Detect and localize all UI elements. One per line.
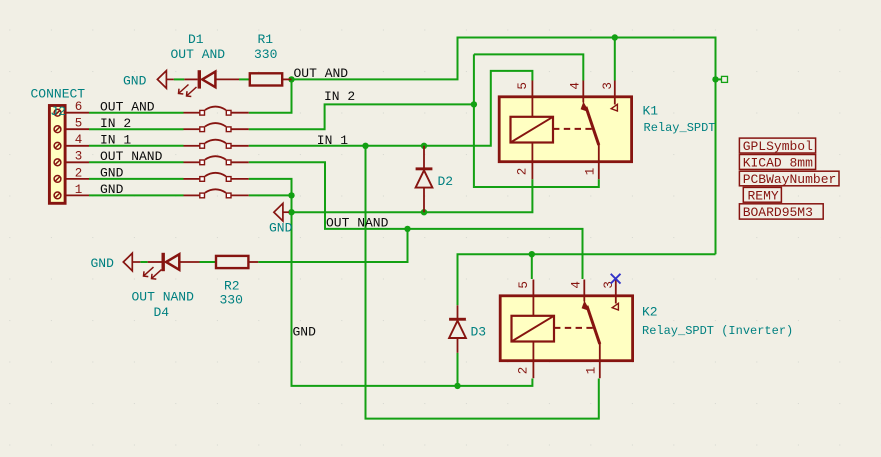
connector J2 CONNECT <box>31 87 90 204</box>
svg-text:D3: D3 <box>471 324 487 339</box>
wire GND branch to K1 pin2 <box>292 179 533 212</box>
svg-text:PCBWayNumber: PCBWayNumber <box>743 172 837 187</box>
svg-text:OUT NAND: OUT NAND <box>100 149 163 164</box>
junction OUT NAND to R2 <box>404 226 410 232</box>
text box GPLSymbol <box>739 138 815 154</box>
resistor R1 <box>250 73 292 85</box>
svg-text:IN 1: IN 1 <box>317 133 348 148</box>
svg-text:D2: D2 <box>438 174 454 189</box>
ground symbol at D4 <box>123 253 140 271</box>
wire row6 from connector <box>89 112 184 114</box>
connector row labels <box>100 99 163 197</box>
svg-text:OUT AND: OUT AND <box>100 99 155 114</box>
svg-text:IN 1: IN 1 <box>100 132 131 147</box>
svg-text:330: 330 <box>220 293 243 308</box>
svg-text:5: 5 <box>516 82 530 90</box>
ground symbol mid <box>274 203 289 221</box>
relay K1 <box>499 81 631 180</box>
svg-text:R1: R1 <box>258 32 274 47</box>
jumper row 4 <box>184 140 249 149</box>
svg-text:IN 2: IN 2 <box>324 89 355 104</box>
svg-text:4: 4 <box>568 82 582 90</box>
ground symbol at D1 <box>157 71 173 89</box>
wire OUT AND drop to K1 pin3 <box>614 38 616 81</box>
svg-text:REMY: REMY <box>748 189 779 204</box>
svg-text:OUT NAND: OUT NAND <box>326 216 389 231</box>
svg-text:K2: K2 <box>642 304 658 319</box>
svg-text:OUT AND: OUT AND <box>294 66 349 81</box>
wire D1 gnd gap <box>174 78 185 80</box>
junction right riser stub <box>712 76 718 82</box>
jumper row 5 <box>184 123 249 132</box>
junction GND symbol <box>288 209 294 215</box>
text box PCBWayNumber <box>739 171 839 187</box>
wire row5 from connector <box>89 128 184 130</box>
svg-text:4: 4 <box>75 133 83 147</box>
svg-text:J2: J2 <box>50 104 66 119</box>
svg-text:R2: R2 <box>224 279 240 294</box>
wire GND row2 join <box>249 179 533 386</box>
jumper row 2 <box>184 173 249 182</box>
no-connect X on K2 pin3 <box>611 274 621 284</box>
junction K2 coil feed <box>529 251 535 257</box>
svg-text:Relay_SPDT: Relay_SPDT <box>644 121 716 135</box>
svg-text:BOARD95M3: BOARD95M3 <box>743 205 813 220</box>
jumper row 1 <box>184 189 249 198</box>
wire stub at right riser <box>716 78 722 80</box>
wire D4 gnd gap <box>140 261 147 263</box>
relay K2 <box>500 280 632 379</box>
junction IN2 <box>471 101 477 107</box>
svg-text:6: 6 <box>75 100 83 114</box>
wire IN1 down to K2 pin1 <box>366 146 599 419</box>
wire K2 coil feed from riser <box>458 254 716 305</box>
led D4 <box>144 253 200 279</box>
junction GND at D2 anode <box>421 209 427 215</box>
svg-text:CONNECT: CONNECT <box>31 87 86 102</box>
svg-text:OUT NAND: OUT NAND <box>132 289 195 304</box>
text box BOARD95M3 <box>739 204 823 220</box>
wire D4 to R2 <box>200 261 216 263</box>
svg-text:OUT AND: OUT AND <box>171 47 226 62</box>
text box KICAD 8mm <box>739 155 815 171</box>
svg-text:D4: D4 <box>154 305 170 320</box>
svg-text:1: 1 <box>584 168 598 176</box>
svg-text:GND: GND <box>100 182 124 197</box>
unconnected wire end square <box>722 76 728 82</box>
svg-text:Relay_SPDT (Inverter): Relay_SPDT (Inverter) <box>642 324 793 338</box>
svg-text:GND: GND <box>100 166 124 181</box>
wire IN1 net row4 to corner <box>249 71 533 146</box>
svg-text:GND: GND <box>293 325 317 340</box>
svg-text:330: 330 <box>254 47 277 62</box>
svg-text:2: 2 <box>516 168 530 176</box>
junction GND at D3 <box>454 383 460 389</box>
svg-text:K1: K1 <box>643 104 659 119</box>
junction top wire to K1 pin3 <box>612 34 618 40</box>
wire OUT AND net: R1 junction to right riser <box>292 38 716 255</box>
junction IN1 at D2 <box>421 143 427 149</box>
diode D3 <box>449 305 466 353</box>
svg-text:GPLSymbol: GPLSymbol <box>743 139 813 154</box>
svg-text:GND: GND <box>91 256 115 271</box>
diode D2 <box>416 146 433 212</box>
K1 pins red outside <box>531 81 533 97</box>
jumper row 3 <box>184 156 249 165</box>
wire D1 to R1 <box>239 78 249 80</box>
wire row1 from connector <box>89 194 184 196</box>
wire OUT NAND row3 to K2 pin4 <box>249 162 583 279</box>
K1 pin numbers <box>516 82 615 175</box>
junction IN1 to K2 branch <box>362 143 368 149</box>
led D1 <box>179 70 240 96</box>
resistor R2 <box>216 256 258 268</box>
svg-text:IN 2: IN 2 <box>100 116 131 131</box>
wire OUT NAND branch to R2 <box>258 229 407 262</box>
svg-text:3: 3 <box>601 82 615 90</box>
svg-text:D1: D1 <box>188 32 204 47</box>
jumper row 6 <box>184 107 249 116</box>
wire D3 bottom to GND <box>457 353 459 386</box>
wire IN2 net from row5 to K1 <box>249 104 474 129</box>
text box REMY <box>743 187 781 203</box>
wire IN2 vertical branch <box>474 54 599 187</box>
wire row4 from connector <box>89 145 184 147</box>
svg-text:GND: GND <box>269 221 293 236</box>
svg-text:GND: GND <box>123 73 147 88</box>
wire OUT AND riser from row6 <box>249 79 292 112</box>
wire row3 from connector <box>89 161 184 163</box>
junction at R1 output <box>288 76 294 82</box>
wire GND row1 join <box>249 194 292 196</box>
svg-text:3: 3 <box>75 150 83 164</box>
svg-text:1: 1 <box>75 183 83 197</box>
wire row2 from connector <box>89 178 184 180</box>
junction GND rows <box>288 192 294 198</box>
wire IN2 to K1 pin4 <box>474 54 583 80</box>
wire K2 pin5 drop <box>531 254 533 279</box>
svg-text:2: 2 <box>75 166 83 180</box>
svg-text:5: 5 <box>75 117 83 131</box>
svg-text:KICAD 8mm: KICAD 8mm <box>743 156 813 171</box>
